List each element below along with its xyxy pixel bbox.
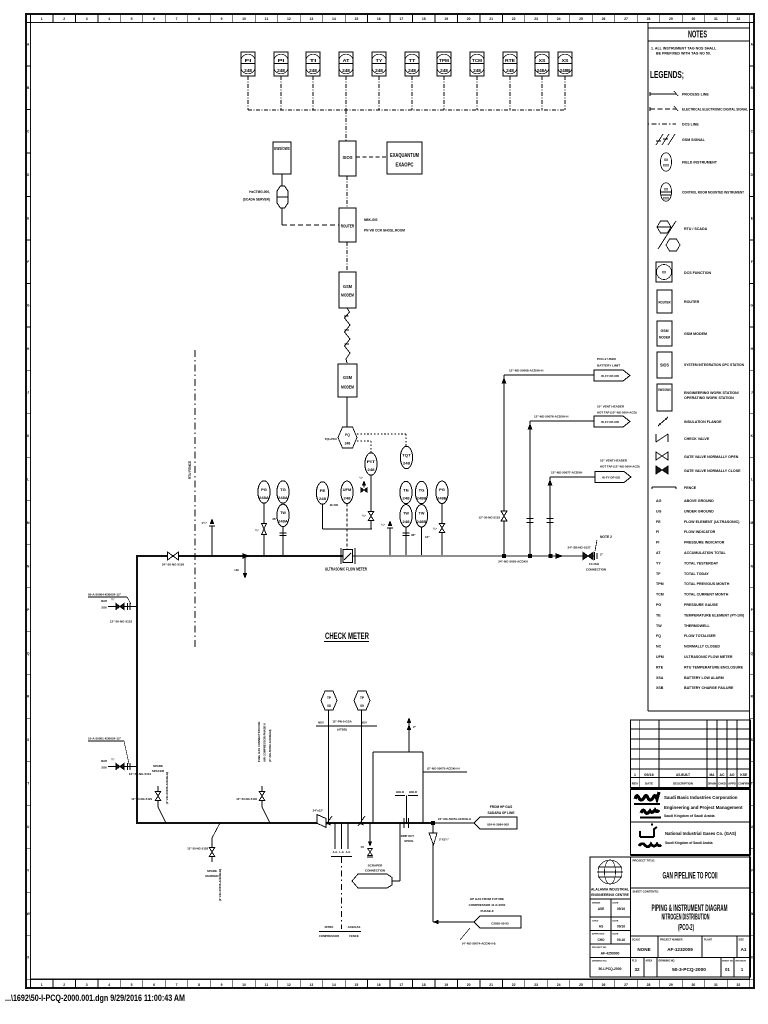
instrument TE-248: [400, 481, 412, 503]
svg-text:S: S: [27, 738, 29, 742]
svg-text:CHO: CHO: [597, 938, 605, 942]
svg-text:NBK-GIS: NBK-GIS: [364, 218, 377, 222]
svg-text:3: 3: [86, 17, 88, 21]
scraper drop: [399, 823, 401, 881]
svg-text:024-K-2984-002: 024-K-2984-002: [487, 823, 509, 827]
svg-text:AG: AG: [656, 499, 662, 503]
svg-text:INSULATION FLANGE: INSULATION FLANGE: [684, 420, 722, 424]
svg-text:UNDER GROUND: UNDER GROUND: [684, 509, 714, 513]
svg-text:26: 26: [602, 983, 606, 987]
instrument TQT-248: [400, 446, 412, 468]
svg-text:APPD: APPD: [728, 782, 736, 786]
svg-text:24"-SB-NG-5127: 24"-SB-NG-5127: [567, 546, 590, 550]
slash valve: [358, 816, 365, 826]
svg-text:15: 15: [354, 983, 358, 987]
svg-text:14: 14: [332, 983, 336, 987]
svg-text:GATE VALVE NORMALLY CLOSE: GATE VALVE NORMALLY CLOSE: [684, 469, 741, 473]
sabic company block: [631, 789, 751, 822]
svg-text:TG: TG: [419, 487, 425, 492]
legend sios: [657, 352, 672, 378]
legend control room instrument: [660, 183, 671, 201]
legend field instrument: [660, 153, 671, 171]
svg-text:2"X1¼": 2"X1¼": [439, 838, 450, 842]
svg-text:L: L: [751, 477, 753, 481]
sios box: [339, 141, 356, 176]
riser to vent header 10: [529, 421, 531, 556]
svg-text:SPADE: SPADE: [153, 764, 163, 768]
svg-text:32: 32: [736, 983, 740, 987]
project title block: [631, 857, 751, 888]
svg-text:Saudi Kingdom of Saudi Arabia: Saudi Kingdom of Saudi Arabia: [664, 814, 715, 818]
riser to vent header 12: [549, 477, 551, 556]
svg-text:FE: FE: [320, 488, 326, 493]
svg-text:XS: XS: [539, 58, 546, 63]
gsm signal zigzag: [344, 308, 350, 363]
svg-text:9: 9: [221, 17, 223, 21]
ag drains: [334, 823, 336, 849]
legend gate valve open: [656, 452, 662, 460]
svg-text:XSA: XSA: [656, 676, 664, 680]
svg-text:32: 32: [634, 967, 640, 972]
svg-text:248A: 248A: [537, 68, 547, 73]
drain HG: [244, 558, 246, 576]
svg-text:TOTAL YESTERDAY: TOTAL YESTERDAY: [684, 561, 719, 565]
drawing number row: [631, 958, 751, 978]
svg-text:ACE/GAS: ACE/GAS: [348, 925, 361, 929]
legend gate valve closed: [656, 466, 662, 474]
svg-text:FQ: FQ: [656, 634, 661, 638]
svg-text:FUEL GAS CONNECTION FOR: FUEL GAS CONNECTION FOR: [257, 722, 261, 762]
svg-text:NITROGEN DISTRIBUTION: NITROGEN DISTRIBUTION: [662, 913, 710, 922]
svg-text:NORMALLY CLOSED: NORMALLY CLOSED: [684, 645, 720, 649]
svg-text:12"-NG-50076-ACDXH-H: 12"-NG-50076-ACDXH-H: [534, 415, 568, 419]
svg-text:FLOW ELEMENT (ULTRASONIC): FLOW ELEMENT (ULTRASONIC): [684, 520, 740, 524]
svg-text:TG: TG: [280, 487, 286, 492]
svg-text:45-FY-DF-035: 45-FY-DF-035: [601, 374, 620, 378]
svg-text:Engineering and Project Manage: Engineering and Project Management: [664, 805, 743, 810]
svg-text:FE: FE: [656, 520, 661, 524]
svg-text:4: 4: [108, 983, 110, 987]
gas company block: [631, 822, 751, 855]
note 2 leader: [595, 540, 597, 551]
svg-text:FLOW INDICATOR: FLOW INDICATOR: [684, 530, 716, 534]
svg-text:TW: TW: [280, 510, 286, 515]
svg-text:PG: PG: [439, 487, 445, 492]
svg-text:248: 248: [402, 519, 410, 524]
gate valve: [368, 511, 374, 516]
svg-text:09/16: 09/16: [617, 907, 625, 911]
svg-text:10: 10: [242, 17, 246, 21]
svg-text:RTU FENCE: RTU FENCE: [188, 461, 192, 479]
svg-text:36": 36": [272, 517, 277, 521]
svg-text:RTU TEMPERATURE ENCLOSURE: RTU TEMPERATURE ENCLOSURE: [684, 665, 744, 669]
svg-text:TQT: TQT: [402, 452, 411, 457]
svg-text:19: 19: [444, 983, 448, 987]
svg-text:27: 27: [624, 17, 628, 21]
svg-text:ENGINEERING WORK STATION/: ENGINEERING WORK STATION/: [684, 391, 739, 395]
svg-text:FI: FI: [656, 530, 659, 534]
svg-text:AC: AC: [720, 773, 726, 777]
svg-text:15: 15: [354, 17, 358, 21]
svg-text:RTE: RTE: [656, 665, 664, 669]
svg-text:AT: AT: [656, 551, 661, 555]
svg-text:SPOOL: SPOOL: [404, 839, 414, 843]
exaquantum box: [387, 142, 422, 174]
svg-text:13: 13: [310, 17, 314, 21]
svg-text:25: 25: [579, 17, 583, 21]
svg-text:22: 22: [512, 17, 516, 21]
svg-text:E: E: [27, 216, 29, 220]
instrument AT-248: [339, 52, 353, 76]
svg-text:12: 12: [287, 17, 291, 21]
svg-text:21: 21: [489, 983, 493, 987]
svg-text:SYSTEM INTEGRATION OPC STATION: SYSTEM INTEGRATION OPC STATION: [684, 363, 744, 367]
gas logo: [639, 823, 661, 846]
dcs signal bus: [248, 109, 565, 111]
svg-text:16: 16: [377, 983, 381, 987]
svg-text:BE PREFIXED WITH TAG NO 50.: BE PREFIXED WITH TAG NO 50.: [656, 52, 711, 56]
svg-text:APPROVED: APPROVED: [592, 933, 605, 936]
svg-text:09/16: 09/16: [644, 773, 654, 777]
svg-text:248: 248: [309, 68, 318, 73]
svg-text:F: F: [27, 260, 29, 264]
svg-text:XSB: XSB: [656, 686, 664, 690]
legend process line: [650, 93, 676, 95]
signal wire drop: [476, 76, 478, 110]
side ruler scales: [26, 22, 31, 24]
junction: [431, 821, 434, 824]
flow totalizer FQ-248: [338, 427, 357, 448]
svg-text:12"-50-NG-5129: 12"-50-NG-5129: [131, 797, 152, 801]
drip funnel: [429, 833, 437, 845]
svg-text:28: 28: [647, 17, 651, 21]
wire: [441, 504, 443, 557]
svg-text:ELECTRICAL ELECTRONIC DIGITAL: ELECTRICAL ELECTRONIC DIGITAL SIGNAL: [682, 108, 749, 112]
signal wire drop: [443, 76, 445, 110]
svg-text:XXX: XXX: [663, 164, 670, 168]
instrument XS-248A: [535, 52, 549, 76]
svg-text:TW: TW: [403, 511, 409, 516]
svg-text:GSM: GSM: [661, 328, 670, 333]
wire: [263, 503, 265, 556]
svg-text:EWS/OWS: EWS/OWS: [274, 146, 290, 151]
svg-text:PHASE-II: PHASE-II: [480, 909, 493, 913]
svg-text:M: M: [27, 521, 30, 525]
svg-text:MODEM: MODEM: [341, 293, 354, 298]
svg-text:(PCO-2): (PCO-2): [678, 923, 694, 932]
svg-text:¾": ¾": [362, 514, 367, 518]
lower header pipe: [136, 822, 433, 824]
svg-text:248B: 248B: [560, 68, 570, 73]
svg-text:50-A-50004-K30024-12": 50-A-50004-K30024-12": [88, 593, 122, 597]
svg-text:18: 18: [422, 17, 426, 21]
svg-text:¾": ¾": [433, 527, 438, 531]
off-page flag vent header 12: [595, 472, 631, 483]
wire server down: [281, 208, 283, 225]
svg-text:HOT TAP (12"-NG-5004-ACD): HOT TAP (12"-NG-5004-ACD): [600, 465, 640, 469]
svg-text:EWS/OWS: EWS/OWS: [658, 388, 671, 392]
slash valve: [325, 816, 332, 826]
svg-text:12"-50-NG-5132: 12"-50-NG-5132: [110, 620, 133, 624]
svg-text:XXX: XXX: [663, 197, 670, 201]
instrument FIT-248: [365, 453, 377, 475]
svg-text:08: 08: [327, 704, 331, 708]
instrument UFM-248: [341, 481, 353, 503]
svg-text:DATE: DATE: [613, 902, 619, 905]
svg-text:SHEET NO.: SHEET NO.: [722, 961, 734, 963]
svg-text:XS: XS: [562, 58, 569, 63]
svg-text:UG: UG: [656, 509, 662, 513]
svg-text:31: 31: [714, 17, 718, 21]
instrument PG-248B: [436, 481, 448, 503]
svg-text:PI: PI: [278, 58, 285, 63]
svg-text:C2855-05-55: C2855-05-55: [491, 922, 509, 926]
instrument FI-248: [241, 52, 255, 76]
svg-text:NGV: NGV: [318, 721, 324, 725]
legend router: [657, 290, 672, 313]
svg-text:10": 10": [425, 535, 430, 539]
svg-text:J: J: [27, 390, 29, 394]
svg-text:16: 16: [377, 17, 381, 21]
gate valve on pipe: [168, 552, 174, 560]
svg-text:E: E: [751, 216, 753, 220]
svg-text:CONNECTION: CONNECTION: [365, 869, 385, 873]
wire fq to fit: [357, 440, 371, 442]
svg-text:24"x12": 24"x12": [313, 809, 324, 813]
instrument TT-248: [405, 52, 419, 76]
junction: [528, 554, 531, 557]
signal wire drop: [345, 76, 347, 110]
svg-text:1¼": 1¼": [201, 521, 207, 525]
svg-text:DATE: DATE: [645, 782, 653, 786]
svg-text:248: 248: [375, 68, 384, 73]
svg-text:CONNECTION: CONNECTION: [586, 568, 606, 572]
svg-text:9: 9: [221, 983, 223, 987]
svg-text:PN VIII CCR GHOSL.ROOM: PN VIII CCR GHOSL.ROOM: [364, 229, 405, 233]
svg-text:7: 7: [176, 17, 178, 21]
svg-text:TE: TE: [656, 613, 661, 617]
svg-text:¾": ¾": [255, 529, 260, 533]
svg-text:CHECK METER: CHECK METER: [325, 631, 369, 642]
wire tp09 down: [361, 710, 363, 822]
svg-text:4: 4: [108, 17, 110, 21]
svg-text:FIELD INSTRUMENT: FIELD INSTRUMENT: [682, 161, 718, 165]
svg-text:12"-NG-50008-ACDXH-H: 12"-NG-50008-ACDXH-H: [509, 369, 543, 373]
svg-text:FLD: FLD: [632, 960, 637, 963]
legend fence: [652, 486, 676, 488]
svg-text:5: 5: [131, 17, 133, 21]
future hp gas line: [433, 921, 474, 923]
svg-text:8: 8: [198, 17, 200, 21]
svg-text:PLANT: PLANT: [704, 939, 713, 942]
svg-text:YY: YY: [656, 561, 661, 565]
svg-text:UFM: UFM: [656, 655, 664, 659]
svg-text:RTE: RTE: [505, 58, 515, 63]
instrument TW-248: [400, 505, 412, 527]
svg-text:FQI+PKU: FQI+PKU: [325, 437, 337, 441]
svg-text:HOLD: HOLD: [409, 790, 417, 794]
svg-text:COMPRESSOR: COMPRESSOR: [319, 934, 339, 938]
svg-text:ULTRASONIC FLOW METER: ULTRASONIC FLOW METER: [684, 655, 733, 659]
notes header: [648, 27, 750, 29]
svg-text:24"-NG-5005-ACDXH: 24"-NG-5005-ACDXH: [498, 560, 528, 564]
svg-text:GSM MODEM: GSM MODEM: [684, 332, 707, 336]
svg-text:248: 248: [402, 496, 410, 501]
source flag future compressor: [474, 916, 521, 928]
svg-text:EXAOPC: EXAOPC: [396, 163, 414, 169]
svg-text:HG: HG: [235, 568, 240, 572]
svg-text:GATE VALVE NORMALLY OPEN: GATE VALVE NORMALLY OPEN: [684, 455, 739, 459]
legend gsm signal: [656, 134, 675, 145]
svg-text:UFM: UFM: [343, 487, 352, 492]
svg-text:248: 248: [367, 467, 375, 472]
wire modem to totalizer: [346, 397, 348, 427]
svg-text:ENGINEERING CENTRE: ENGINEERING CENTRE: [591, 893, 629, 897]
svg-text:TCM: TCM: [656, 593, 664, 597]
wire fit leg: [370, 475, 372, 529]
instrument PI-248: [274, 52, 288, 76]
svg-text:248: 248: [343, 496, 351, 501]
svg-text:DCS FUNCTION: DCS FUNCTION: [684, 271, 712, 275]
wire sios to exaquantum: [356, 156, 387, 158]
instrument TY-248: [372, 52, 386, 76]
svg-text:FROM HP GAS: FROM HP GAS: [490, 805, 512, 809]
svg-text:248: 248: [345, 442, 351, 446]
svg-text:248: 248: [473, 68, 482, 73]
svg-text:CHKD: CHKD: [592, 921, 599, 923]
ultrasonic flow meter: [340, 548, 342, 564]
legend insulation flange: [658, 417, 668, 426]
source flag sadara: [474, 817, 517, 829]
svg-text:26: 26: [602, 17, 606, 21]
svg-text:...\1692\50-I-PCQ-2000.001.dgn: ...\1692\50-I-PCQ-2000.001.dgn 9/29/2016…: [5, 993, 185, 1003]
revision table: [631, 720, 751, 788]
pig launcher: [352, 874, 392, 888]
svg-text:10" VENT HEADER: 10" VENT HEADER: [597, 405, 625, 409]
svg-text:J: J: [751, 390, 753, 394]
svg-text:248: 248: [440, 68, 449, 73]
spade spacer branch: [157, 786, 159, 807]
top ruler scale: [30, 14, 32, 23]
signal wire drop: [312, 76, 314, 110]
wire server to router: [282, 224, 339, 226]
junction: [549, 554, 552, 557]
svg-text:GAN PIPELINE TO PCOII: GAN PIPELINE TO PCOII: [663, 871, 718, 882]
svg-text:EXAQUANTUM: EXAQUANTUM: [390, 153, 419, 159]
svg-text:SPADE: SPADE: [207, 869, 217, 873]
instrument XS-248B: [558, 52, 572, 76]
svg-text:HP GAS FROM FUTURE: HP GAS FROM FUTURE: [470, 897, 504, 901]
svg-text:LEGENDS;: LEGENDS;: [650, 70, 684, 81]
wire fq to tqt: [357, 433, 406, 435]
off-page flag battery limit: [594, 370, 630, 381]
router box: [339, 208, 356, 242]
signal wire drop: [509, 76, 511, 110]
rtu fence boundary: [194, 350, 196, 648]
gsm modem 1 box: [339, 272, 356, 308]
svg-text:BATTERY LOW ALARM: BATTERY LOW ALARM: [684, 676, 724, 680]
svg-text:12"-50-NG-5128: 12"-50-NG-5128: [187, 847, 208, 851]
svg-text:7: 7: [176, 983, 178, 987]
svg-text:COMPRESSOR 41-K-0050: COMPRESSOR 41-K-0050: [469, 903, 506, 907]
svg-text:Saudi Kingdom of Saudi Arabia: Saudi Kingdom of Saudi Arabia: [665, 841, 713, 845]
svg-text:24: 24: [557, 17, 561, 21]
aiec engineering block: [590, 857, 631, 977]
svg-text:FIT: FIT: [367, 459, 377, 464]
svg-text:50-I-PCQ-2000: 50-I-PCQ-2000: [599, 967, 622, 971]
signal wire drop: [411, 76, 413, 110]
wire router to gsm modem: [346, 242, 348, 272]
wire: [405, 527, 407, 556]
svg-text:TI: TI: [310, 58, 317, 63]
gsm modem 2 box: [338, 364, 357, 397]
svg-text:17: 17: [399, 983, 403, 987]
instrument TW-248A: [277, 504, 289, 526]
svg-text:AS-BUILT: AS-BUILT: [676, 773, 691, 777]
svg-text:PRESSURE INDICATOR: PRESSURE INDICATOR: [684, 541, 725, 545]
svg-text:12"-PN-5-GSA: 12"-PN-5-GSA: [332, 720, 352, 724]
svg-text:(2"-NG-50075-ACDXH-H: (2"-NG-50075-ACDXH-H: [427, 767, 460, 771]
svg-text:TW: TW: [419, 511, 425, 516]
compressor fence line: [341, 857, 343, 929]
svg-text:TCM: TCM: [472, 58, 482, 63]
svg-text:12"-50-NG-5133: 12"-50-NG-5133: [479, 516, 501, 520]
wire ufm dashed: [346, 504, 348, 552]
svg-text:SIZE: SIZE: [739, 939, 745, 942]
svg-text:1: 1: [41, 17, 43, 21]
wire fe to meter: [322, 504, 324, 529]
svg-text:13: 13: [310, 983, 314, 987]
svg-text:248: 248: [506, 68, 515, 73]
svg-text:14: 14: [332, 17, 336, 21]
svg-text:National Industrial Gases Co.: National Industrial Gases Co. (GAS): [665, 831, 737, 836]
svg-text:NGV: NGV: [361, 721, 367, 725]
svg-text:1: 1: [41, 983, 43, 987]
rtu point TP-09: [354, 691, 370, 710]
wire bus to sios: [345, 110, 347, 141]
svg-text:DRAWN: DRAWN: [708, 782, 716, 786]
svg-text:248: 248: [244, 68, 253, 73]
legend check valve: [655, 434, 657, 442]
svg-text:248: 248: [277, 68, 286, 73]
svg-text:HxCTMG-000,: HxCTMG-000,: [249, 190, 270, 194]
svg-text:19: 19: [444, 17, 448, 21]
svg-text:45-FY-DF-035: 45-FY-DF-035: [601, 420, 620, 424]
svg-text:DRIP OUT: DRIP OUT: [401, 834, 415, 838]
svg-text:3: 3: [86, 983, 88, 987]
svg-text:BATTERY LIMIT: BATTERY LIMIT: [597, 364, 620, 368]
svg-text:PROJECT NO.: PROJECT NO.: [592, 947, 607, 949]
svg-text:PIPING & INSTRUMENT DIAGRAM: PIPING & INSTRUMENT DIAGRAM: [652, 903, 728, 913]
vent stub: [408, 722, 410, 752]
svg-text:SOK: SOK: [101, 606, 107, 610]
svg-text:SPACER: SPACER: [152, 769, 165, 773]
spade marker branch: [212, 823, 220, 838]
svg-text:ROUTER: ROUTER: [341, 224, 355, 229]
svg-text:(2"-NG-50088-ACDXH-H): (2"-NG-50088-ACDXH-H): [165, 772, 169, 804]
svg-text:KSE: KSE: [740, 773, 747, 777]
svg-text:20: 20: [467, 983, 471, 987]
svg-text:L-G: L-G: [339, 850, 343, 854]
svg-text:2: 2: [63, 983, 65, 987]
svg-text:17: 17: [399, 17, 403, 21]
legend electrical signal: [650, 108, 676, 110]
svg-text:REV: REV: [632, 782, 639, 786]
rtu point TP-08: [321, 691, 337, 710]
svg-text:PRESSURE GAUGE: PRESSURE GAUGE: [684, 603, 719, 607]
svg-text:SCALE: SCALE: [632, 939, 641, 942]
svg-text:11: 11: [265, 17, 269, 21]
